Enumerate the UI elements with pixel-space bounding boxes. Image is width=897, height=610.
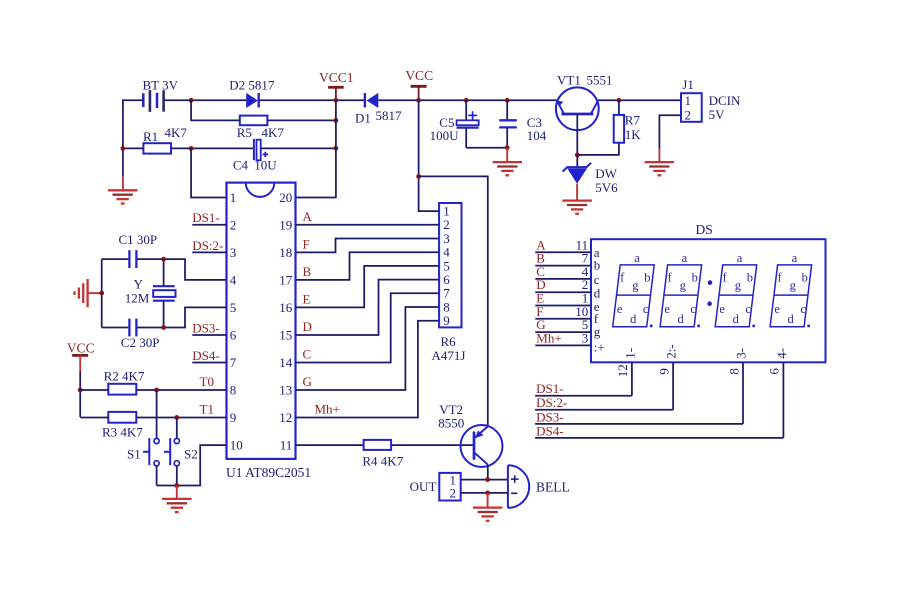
junction — [485, 491, 490, 496]
svg-text:DS1-: DS1- — [192, 210, 219, 225]
wire — [296, 280, 440, 335]
junction — [189, 98, 194, 103]
junction — [575, 153, 580, 158]
wire — [296, 293, 440, 362]
svg-text:4-: 4- — [774, 348, 789, 359]
svg-text:5817: 5817 — [376, 108, 403, 123]
node DS1- — [535, 381, 632, 396]
7-segment digit 4 — [770, 251, 812, 327]
svg-text:VCC: VCC — [67, 340, 95, 355]
svg-text:S1: S1 — [127, 446, 141, 461]
wire — [487, 465, 489, 480]
node DS3- — [535, 409, 743, 424]
power VCC — [67, 340, 95, 417]
svg-text:g: g — [735, 279, 742, 293]
display common pin 2:- — [656, 344, 678, 374]
svg-text:c: c — [800, 302, 806, 316]
svg-text:4K7: 4K7 — [165, 125, 188, 140]
svg-text:3: 3 — [230, 245, 237, 260]
svg-text:3-: 3- — [734, 348, 749, 359]
svg-text:R2 4K7: R2 4K7 — [104, 368, 145, 383]
junction — [161, 257, 166, 262]
svg-text:12: 12 — [279, 410, 292, 425]
wire — [101, 259, 103, 327]
svg-text:20: 20 — [279, 190, 292, 205]
svg-text:e: e — [774, 302, 780, 316]
svg-text:VCC: VCC — [405, 68, 433, 83]
power VCC — [405, 68, 433, 100]
svg-text:VT1: VT1 — [557, 72, 581, 87]
wire — [391, 444, 474, 446]
svg-text:12M: 12M — [125, 290, 150, 305]
svg-text:11: 11 — [280, 438, 293, 453]
connector J1 — [681, 77, 741, 122]
wire — [659, 115, 681, 149]
svg-text:R6: R6 — [441, 334, 457, 349]
svg-text:17: 17 — [279, 272, 293, 287]
wire — [164, 99, 247, 101]
wire — [267, 119, 336, 121]
resistor R2 — [104, 368, 145, 394]
node T1 — [200, 402, 214, 417]
svg-text:A471J: A471J — [432, 348, 466, 363]
svg-text:9: 9 — [230, 410, 237, 425]
svg-text:14: 14 — [279, 355, 293, 370]
wire — [296, 252, 440, 280]
svg-text:S2: S2 — [184, 446, 198, 461]
node DS:2- — [535, 395, 673, 410]
connector OUT — [410, 472, 461, 500]
junction — [485, 477, 490, 482]
node DS3- — [192, 320, 226, 335]
svg-text:c: c — [745, 302, 751, 316]
svg-text:g: g — [680, 279, 687, 293]
svg-text:18: 18 — [279, 245, 292, 260]
capacitor C2 — [121, 319, 160, 351]
svg-text:6: 6 — [230, 328, 237, 343]
svg-text:d: d — [630, 312, 637, 326]
svg-text:DS1-: DS1- — [536, 381, 563, 396]
node D pin 2 — [535, 277, 591, 292]
svg-text:4: 4 — [230, 272, 237, 287]
node F — [303, 237, 310, 252]
svg-text:R1: R1 — [143, 129, 158, 144]
svg-text:DS:2-: DS:2- — [536, 395, 567, 410]
node F pin 10 — [535, 304, 591, 319]
svg-text:a: a — [792, 251, 798, 265]
svg-text:104: 104 — [527, 128, 547, 143]
svg-text:5551: 5551 — [587, 72, 613, 87]
battery BT — [143, 77, 179, 112]
capacitor C3 — [499, 100, 547, 147]
wire — [419, 100, 440, 211]
svg-text:U1 AT89C2051: U1 AT89C2051 — [226, 465, 311, 480]
wire — [419, 176, 488, 426]
wire — [672, 362, 674, 409]
wire — [80, 389, 108, 391]
svg-text:e: e — [719, 302, 725, 316]
svg-text:d: d — [787, 312, 794, 326]
display segment pin letters — [594, 245, 605, 354]
svg-text:DCIN: DCIN — [709, 93, 741, 108]
svg-text:2: 2 — [230, 217, 237, 232]
junction — [617, 98, 622, 103]
svg-text:1-: 1- — [623, 348, 638, 359]
node B — [303, 264, 312, 279]
svg-text:4K7: 4K7 — [262, 125, 285, 140]
wire — [296, 321, 440, 418]
zener DW — [563, 155, 619, 195]
svg-text:9: 9 — [656, 368, 671, 375]
wire — [123, 147, 143, 149]
junction — [334, 98, 339, 103]
junction — [505, 145, 510, 150]
node Mh+ — [315, 402, 340, 417]
svg-text:5: 5 — [230, 300, 237, 315]
display DS frame — [591, 222, 826, 362]
svg-text:G: G — [303, 374, 312, 389]
switch S2 — [164, 418, 198, 486]
display common pin 1- — [615, 348, 637, 377]
wire — [296, 266, 440, 308]
7-segment digit 3 — [715, 251, 757, 327]
svg-text:Mh+: Mh+ — [536, 330, 561, 345]
wire — [171, 147, 254, 149]
svg-text:15: 15 — [279, 328, 292, 343]
svg-text:B: B — [303, 264, 312, 279]
diode D1 — [355, 93, 402, 126]
junction — [416, 98, 421, 103]
svg-text:DS: DS — [696, 222, 713, 237]
capacitor C4 — [233, 139, 277, 172]
svg-text:T0: T0 — [200, 374, 214, 389]
wire — [138, 259, 227, 280]
svg-text:10: 10 — [230, 438, 243, 453]
junction — [121, 146, 126, 151]
svg-text:3: 3 — [582, 330, 589, 345]
svg-text::+: :+ — [594, 339, 605, 354]
wire — [598, 99, 681, 101]
svg-text:1K: 1K — [625, 127, 642, 142]
wire — [191, 100, 240, 120]
junction — [464, 98, 469, 103]
svg-text:6: 6 — [767, 368, 782, 375]
svg-text:100U: 100U — [430, 128, 460, 143]
wire — [461, 479, 508, 481]
wire — [378, 99, 556, 101]
resistor R4 — [362, 440, 403, 469]
diode D2 — [229, 77, 275, 108]
7-segment digit 1 — [613, 251, 655, 327]
wire — [157, 445, 227, 485]
svg-text:12: 12 — [615, 364, 630, 377]
svg-text:C4: C4 — [233, 157, 249, 172]
ground — [562, 184, 592, 214]
crystal Y — [125, 259, 176, 327]
junction — [174, 483, 179, 488]
svg-text:F: F — [303, 237, 310, 252]
node T0 — [200, 374, 214, 389]
svg-text:9: 9 — [443, 313, 450, 328]
transistor VT1 — [556, 72, 613, 155]
power VCC1 — [319, 70, 354, 100]
wire — [136, 389, 226, 391]
svg-text:e: e — [617, 302, 623, 316]
svg-text:2: 2 — [450, 486, 457, 501]
7-segment digit 2 — [660, 251, 702, 327]
svg-text:C2 30P: C2 30P — [121, 335, 160, 350]
wire — [191, 148, 226, 197]
svg-text:a: a — [737, 251, 743, 265]
wire — [296, 100, 336, 197]
node G — [303, 374, 312, 389]
junction — [154, 388, 159, 393]
ground — [473, 493, 503, 521]
wire — [80, 417, 108, 419]
wire — [259, 99, 365, 101]
node E — [303, 292, 311, 307]
buzzer BELL — [508, 465, 570, 508]
svg-text:13: 13 — [279, 383, 292, 398]
svg-text:5V: 5V — [709, 107, 726, 122]
resistor R1 — [143, 125, 187, 153]
svg-text:1: 1 — [230, 190, 237, 205]
wire — [123, 100, 143, 177]
wire — [631, 362, 633, 395]
svg-text:b: b — [747, 271, 753, 285]
svg-text:2:-: 2:- — [664, 344, 679, 358]
svg-text:a: a — [682, 251, 688, 265]
resistor R7 — [577, 100, 641, 155]
svg-text:T1: T1 — [200, 402, 214, 417]
svg-text:DS4-: DS4- — [192, 348, 219, 363]
ground — [75, 279, 102, 307]
svg-text:1: 1 — [685, 93, 692, 108]
svg-text:VCC1: VCC1 — [319, 70, 354, 85]
junction — [416, 174, 421, 179]
wire — [138, 307, 227, 327]
colon — [707, 280, 712, 306]
wire — [296, 307, 440, 390]
node B pin 7 — [535, 251, 591, 266]
capacitor C5 — [430, 100, 479, 147]
svg-text:b: b — [802, 271, 808, 285]
svg-text:16: 16 — [279, 300, 293, 315]
ground — [108, 177, 137, 204]
svg-text:DS:2-: DS:2- — [192, 238, 223, 253]
wire — [296, 224, 440, 226]
svg-text:c: c — [690, 302, 696, 316]
svg-text:DS3-: DS3- — [536, 409, 563, 424]
wire — [461, 492, 508, 494]
svg-text:2: 2 — [685, 107, 692, 122]
svg-text:19: 19 — [279, 217, 292, 232]
wire — [102, 327, 129, 329]
svg-text:DS4-: DS4- — [536, 423, 563, 438]
node C pin 4 — [535, 264, 591, 279]
svg-text:C: C — [303, 347, 312, 362]
wire — [261, 147, 336, 149]
junction — [78, 388, 83, 393]
svg-text:d: d — [677, 312, 684, 326]
node D — [303, 319, 312, 334]
svg-text:Y: Y — [134, 277, 144, 292]
svg-text:BT 3V: BT 3V — [143, 77, 179, 92]
node C — [303, 347, 312, 362]
svg-text:g: g — [632, 279, 639, 293]
junction — [189, 146, 194, 151]
junction — [174, 415, 179, 420]
svg-text:d: d — [733, 312, 740, 326]
capacitor C1 — [119, 232, 158, 268]
svg-text:R4 4K7: R4 4K7 — [362, 453, 403, 468]
node DS:2- — [192, 238, 226, 253]
svg-text:g: g — [790, 279, 797, 293]
wire — [136, 417, 226, 419]
svg-text:e: e — [664, 302, 670, 316]
svg-text:c: c — [643, 302, 649, 316]
node G pin 5 — [535, 317, 591, 332]
svg-text:DS3-: DS3- — [192, 320, 219, 335]
wire — [742, 362, 744, 424]
resistor R5 — [237, 116, 285, 141]
node E pin 1 — [535, 291, 591, 306]
svg-text:b: b — [594, 258, 601, 273]
junction — [99, 291, 104, 296]
svg-text:A: A — [303, 209, 313, 224]
svg-text:g: g — [594, 324, 601, 339]
svg-text:D: D — [303, 319, 312, 334]
svg-text:8550: 8550 — [438, 416, 464, 431]
svg-text:OUT: OUT — [410, 479, 437, 494]
node Mh+ pin 3 — [535, 330, 591, 345]
svg-text:10U: 10U — [254, 157, 277, 172]
ground — [645, 149, 675, 175]
svg-text:Mh+: Mh+ — [315, 402, 340, 417]
switch S1 — [127, 390, 159, 486]
svg-text:E: E — [303, 292, 311, 307]
wire — [102, 258, 129, 260]
svg-text:8: 8 — [230, 383, 237, 398]
resistor R3 — [102, 412, 143, 440]
display common pin 3- — [726, 348, 748, 375]
node DS4- — [535, 423, 783, 438]
svg-text:D2 5817: D2 5817 — [229, 77, 275, 92]
svg-text:a: a — [634, 251, 640, 265]
svg-text:7: 7 — [230, 355, 237, 370]
ground — [493, 148, 522, 176]
ground — [162, 486, 192, 513]
svg-text:J1: J1 — [682, 77, 694, 92]
node A — [303, 209, 313, 224]
transistor VT2 — [438, 402, 502, 467]
node DS1- — [192, 210, 226, 225]
svg-text:D1: D1 — [355, 110, 371, 125]
svg-text:b: b — [692, 271, 698, 285]
svg-text:R3 4K7: R3 4K7 — [102, 425, 143, 440]
wire — [466, 147, 507, 149]
junction — [334, 146, 339, 151]
node A pin 11 — [535, 237, 591, 252]
op-amp U1 AT89C2051 — [226, 183, 311, 480]
svg-text:R5: R5 — [237, 125, 252, 140]
resistor network R6 — [432, 203, 466, 363]
junction — [334, 118, 339, 123]
svg-text:R7: R7 — [625, 112, 641, 127]
node DS4- — [192, 348, 226, 363]
svg-text:C1 30P: C1 30P — [119, 232, 158, 247]
wire — [296, 239, 440, 253]
svg-text:BELL: BELL — [536, 479, 570, 494]
svg-text:5V6: 5V6 — [595, 180, 618, 195]
wire — [782, 362, 784, 438]
junction — [505, 98, 510, 103]
display common pin 4- — [767, 348, 789, 375]
svg-text:8: 8 — [726, 368, 741, 375]
svg-text:b: b — [644, 271, 650, 285]
junction — [161, 325, 166, 330]
wire — [296, 444, 364, 446]
